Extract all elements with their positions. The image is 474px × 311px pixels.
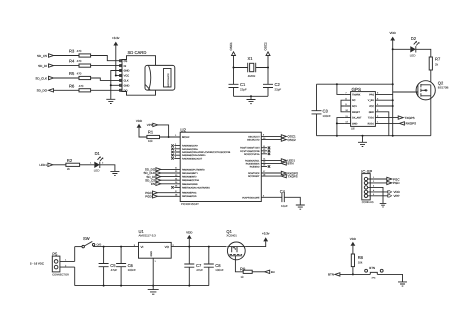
svg-text:470: 470 bbox=[77, 49, 82, 53]
ground D1 bbox=[110, 171, 119, 175]
wire R8 to btn row bbox=[352, 267, 354, 275]
connector SD CARD bbox=[120, 50, 156, 95]
svg-text:C7: C7 bbox=[196, 263, 202, 268]
junction bottom rail left bbox=[336, 135, 338, 137]
svg-text:SD CARD: SD CARD bbox=[128, 50, 147, 55]
svg-text:5 - 16 VDC: 5 - 16 VDC bbox=[30, 262, 44, 266]
resistor R8 bbox=[351, 254, 363, 267]
node TXGPS right U2 bbox=[261, 173, 297, 178]
svg-text:47uF: 47uF bbox=[196, 268, 203, 272]
junction C8 top bbox=[208, 246, 210, 248]
power VDD gps bbox=[390, 31, 397, 136]
wire Q1 gate down to R9 bbox=[235, 260, 243, 272]
wire VCAP to C4 bbox=[261, 195, 282, 198]
U2 RB5 stub nc bbox=[171, 185, 180, 189]
svg-text:470: 470 bbox=[77, 72, 82, 76]
wire R4 to SD DI pin bbox=[91, 65, 122, 67]
node SD_CS bbox=[37, 54, 54, 58]
svg-text:R5: R5 bbox=[69, 71, 75, 76]
svg-text:C4: C4 bbox=[280, 189, 286, 194]
wire vdd to D2 bbox=[393, 48, 411, 50]
junction top rail vdd bbox=[392, 83, 394, 85]
junction crystal gnd bbox=[250, 95, 252, 97]
svg-text:XC6401: XC6401 bbox=[226, 234, 237, 238]
junction vcc bbox=[392, 105, 394, 107]
node SD_DO bbox=[37, 89, 54, 93]
wire GPS pins 8 9 10 tie bbox=[341, 100, 345, 112]
node RXGPS gps bbox=[382, 122, 417, 126]
svg-text:2k: 2k bbox=[67, 167, 71, 171]
svg-text:DO: DO bbox=[124, 90, 128, 93]
junction C6 top bbox=[120, 246, 122, 248]
svg-text:RB5/T0CKI/AC+/OUTA/KBI1: RB5/T0CKI/AC+/OUTA/KBI1 bbox=[182, 186, 211, 189]
capacitor C1 bbox=[229, 68, 247, 97]
capacitor C6 bbox=[116, 247, 136, 286]
svg-text:EN: EN bbox=[271, 271, 275, 274]
wire GND pins bbox=[111, 71, 122, 100]
svg-text:GND: GND bbox=[124, 70, 130, 73]
junction C6 bottom bbox=[120, 285, 122, 287]
wire Q1 out to +3.3v bbox=[245, 241, 266, 246]
svg-text:10k: 10k bbox=[358, 260, 363, 264]
svg-text:VCC: VCC bbox=[369, 105, 374, 108]
svg-text:R1: R1 bbox=[148, 129, 154, 134]
svg-text:470: 470 bbox=[79, 84, 84, 88]
svg-text:RC7/RX/DT: RC7/RX/DT bbox=[248, 175, 260, 178]
svg-text:DI: DI bbox=[124, 65, 127, 68]
resistor R4 bbox=[69, 59, 91, 67]
svg-text:TMARK: TMARK bbox=[352, 93, 361, 96]
ground btn bbox=[398, 282, 407, 286]
junction C7 vdd bbox=[188, 246, 190, 248]
wire U1 gnd down bbox=[152, 258, 154, 285]
svg-text:SW: SW bbox=[83, 236, 90, 241]
junction bottom rail vdd line bbox=[392, 135, 394, 137]
svg-text:PGD: PGD bbox=[393, 181, 400, 185]
wire VCC pin bbox=[116, 75, 122, 77]
svg-text:100nF: 100nF bbox=[128, 268, 136, 272]
U2 left pin labels bbox=[182, 136, 231, 198]
junction C7 bottom bbox=[188, 285, 190, 287]
capacitor C3 bbox=[312, 109, 331, 118]
svg-text:C1: C1 bbox=[240, 82, 246, 87]
capacitor C7 bbox=[184, 247, 203, 286]
junction VCC bbox=[115, 75, 117, 77]
svg-text:R6: R6 bbox=[69, 83, 75, 88]
node VDD icsp bbox=[368, 189, 401, 194]
wire btn to ground bbox=[377, 274, 402, 282]
svg-text:100nF: 100nF bbox=[323, 114, 331, 118]
svg-text:RA3/AN3/C1IN+/VREF+: RA3/AN3/C1IN+/VREF+ bbox=[182, 154, 206, 157]
svg-text:C5: C5 bbox=[110, 263, 116, 268]
junction top rail pin7 bbox=[336, 83, 338, 85]
junction led branch bbox=[392, 48, 394, 50]
capacitor C4 bbox=[280, 189, 288, 208]
svg-text:D1: D1 bbox=[95, 151, 101, 156]
node SD_DO left U2 bbox=[145, 167, 180, 172]
op-amp U2 microcontroller box bbox=[180, 127, 261, 206]
svg-text:C8: C8 bbox=[215, 263, 221, 268]
junction C5 top bbox=[103, 246, 105, 248]
node PGC left U2 bbox=[145, 190, 180, 195]
resistor R3 bbox=[69, 49, 91, 58]
wire GPS left rail bbox=[316, 84, 318, 136]
svg-text:RC2/CCP1/P1A: RC2/CCP1/P1A bbox=[244, 153, 260, 156]
svg-text:AMS1117-3.3: AMS1117-3.3 bbox=[139, 234, 157, 238]
svg-text:DX_ANT: DX_ANT bbox=[352, 117, 362, 120]
power VDD btn bbox=[350, 237, 357, 254]
svg-text:VI: VI bbox=[141, 245, 144, 249]
svg-text:470: 470 bbox=[77, 59, 82, 63]
svg-text:RXD1: RXD1 bbox=[368, 122, 375, 125]
svg-text:MICROMATE: MICROMATE bbox=[167, 73, 170, 87]
transistor Q1 bbox=[226, 229, 245, 260]
power +3.3v out bbox=[262, 232, 270, 242]
svg-text:SD_CS: SD_CS bbox=[37, 54, 47, 58]
svg-text:VCAP/VDDCORE: VCAP/VDDCORE bbox=[242, 196, 260, 199]
svg-text:OSC2: OSC2 bbox=[288, 138, 297, 142]
svg-text:PGD: PGD bbox=[145, 195, 152, 199]
svg-text:R7: R7 bbox=[435, 57, 441, 62]
wire GPS pin7 bbox=[337, 84, 345, 94]
svg-text:VDD: VDD bbox=[136, 119, 143, 123]
svg-text:BTN: BTN bbox=[328, 273, 334, 277]
node BTN right U2 bbox=[261, 161, 293, 166]
svg-text:BS170B: BS170B bbox=[438, 86, 449, 90]
node OSC2 right U2 bbox=[261, 137, 296, 142]
node EN left U2 bbox=[151, 181, 180, 186]
svg-text:RB6/AN5/PGC: RB6/AN5/PGC bbox=[182, 191, 197, 194]
svg-text:RC5/SDO: RC5/SDO bbox=[250, 166, 260, 169]
svg-text:GPS: GPS bbox=[352, 87, 362, 92]
junction C5 bottom bbox=[103, 285, 105, 287]
svg-text:CONNECTOR: CONNECTOR bbox=[52, 273, 69, 276]
svg-text:MCLR: MCLR bbox=[182, 136, 189, 139]
wire U1 out rail bbox=[171, 246, 226, 248]
node OSC1 crystal bbox=[229, 42, 236, 68]
svg-text:GND: GND bbox=[369, 111, 375, 114]
wire C4 to ground bbox=[284, 197, 300, 205]
svg-text:47uF: 47uF bbox=[111, 268, 118, 272]
sd card body drawing bbox=[145, 65, 175, 90]
svg-text:+3.3v: +3.3v bbox=[262, 232, 270, 236]
junction MCLR bbox=[168, 136, 170, 138]
svg-text:RB4/AN11/KBI0: RB4/AN11/KBI0 bbox=[182, 183, 198, 186]
svg-text:BTN: BTN bbox=[288, 162, 294, 166]
svg-text:GND: GND bbox=[124, 85, 130, 88]
svg-text:RC4/SDI/SDA: RC4/SDI/SDA bbox=[246, 162, 260, 165]
junction bottom rail gnd bbox=[362, 135, 364, 137]
svg-text:SD_DI: SD_DI bbox=[38, 64, 47, 68]
wire Q2 source down bbox=[430, 96, 432, 136]
ground crystal bbox=[247, 96, 256, 103]
svg-text:RB1/AN10/INT1: RB1/AN10/INT1 bbox=[182, 172, 198, 175]
svg-text:PPS: PPS bbox=[369, 93, 374, 96]
svg-text:22pF: 22pF bbox=[240, 88, 247, 92]
svg-text:R2: R2 bbox=[67, 158, 73, 163]
svg-text:LED1: LED1 bbox=[39, 163, 47, 167]
button BTN bbox=[365, 266, 383, 279]
svg-text:C3: C3 bbox=[323, 109, 329, 114]
svg-text:VDD: VDD bbox=[186, 230, 193, 234]
svg-text:OSC1/CLKI: OSC1/CLKI bbox=[248, 135, 260, 138]
svg-text:TXD1: TXD1 bbox=[368, 117, 375, 120]
svg-text:RA1/AN1/C2IN+: RA1/AN1/C2IN+ bbox=[182, 148, 199, 151]
resistor R5 bbox=[69, 71, 91, 80]
svg-text:GND: GND bbox=[352, 122, 358, 125]
node EN q1 bbox=[252, 270, 274, 274]
wire icsp pin3 to ground bbox=[368, 185, 383, 204]
wire GPS top rail bbox=[317, 83, 393, 85]
svg-text:RA2/AN2/C2IN-/VREF-/CVREF/C1/T: RA2/AN2/C2IN-/VREF-/CVREF/C1/T1OSC/CP2B bbox=[182, 151, 231, 154]
svg-text:RB2/AN8/INT2: RB2/AN8/INT2 bbox=[182, 176, 197, 179]
U2 RA pin stubs nc bbox=[171, 143, 180, 160]
svg-text:VPP: VPP bbox=[147, 123, 153, 127]
node LED1 left bbox=[39, 163, 53, 167]
svg-text:R9: R9 bbox=[240, 266, 246, 271]
svg-text:RC6/TX/CK: RC6/TX/CK bbox=[248, 172, 260, 175]
junction pin12 bbox=[336, 122, 338, 124]
connector IC-SP bbox=[361, 169, 374, 204]
capacitor C2 bbox=[263, 68, 281, 97]
wire SD_DO to R6 bbox=[54, 89, 80, 91]
resistor R6 bbox=[69, 83, 91, 91]
junction GND bbox=[110, 84, 112, 86]
resistor R2 bbox=[66, 158, 80, 171]
wire R3 to SD CS pin bbox=[91, 56, 122, 61]
crystal X1 bbox=[234, 56, 269, 78]
node BTN signal bbox=[328, 273, 370, 277]
svg-text:NC1: NC1 bbox=[352, 105, 357, 108]
wire R6 to SD DO pin bbox=[91, 89, 122, 91]
svg-text:VCC: VCC bbox=[124, 75, 130, 78]
wire GPS pins 11 12 to rail bbox=[337, 118, 345, 136]
svg-text:RB7/AN6/PGD: RB7/AN6/PGD bbox=[182, 195, 197, 198]
svg-text:OSC1: OSC1 bbox=[229, 42, 233, 51]
wire D2 to R7 bbox=[416, 49, 431, 57]
svg-text:CONN-H5: CONN-H5 bbox=[362, 201, 374, 204]
node TXGPS gps bbox=[382, 116, 415, 120]
node LED1 right U2 bbox=[261, 158, 295, 163]
wire main rail to U1 bbox=[104, 246, 139, 248]
svg-text:C2: C2 bbox=[275, 82, 281, 87]
module GPS box bbox=[345, 87, 382, 131]
node PGD left U2 bbox=[145, 194, 180, 199]
U2 RC0-RC2 stubs nc bbox=[261, 145, 270, 155]
svg-text:EN: EN bbox=[151, 182, 155, 186]
node SD_CLK left U2 bbox=[144, 170, 181, 175]
U2 RC5 stub nc bbox=[261, 164, 270, 168]
svg-text:R8: R8 bbox=[358, 255, 364, 260]
node RXGPS right U2 bbox=[261, 170, 298, 175]
svg-text:+3.3v: +3.3v bbox=[112, 36, 120, 40]
wire SD_CLK to R5 bbox=[54, 77, 80, 79]
svg-text:RXGPS: RXGPS bbox=[406, 122, 417, 126]
svg-text:BTN: BTN bbox=[369, 266, 375, 270]
capacitor C5 bbox=[99, 247, 118, 286]
wire GPS right pins to vdd rail bbox=[382, 94, 393, 135]
svg-text:RC1/T1OSI/CCP2B: RC1/T1OSI/CCP2B bbox=[240, 150, 260, 153]
resistor R7 bbox=[429, 57, 441, 70]
svg-text:100nF: 100nF bbox=[215, 268, 223, 272]
svg-text:VO: VO bbox=[165, 245, 170, 249]
svg-text:VPP: VPP bbox=[394, 194, 400, 198]
node SD_DI left U2 bbox=[146, 174, 180, 179]
svg-text:PIC16F15C4T: PIC16F15C4T bbox=[181, 202, 199, 206]
wire R7 to Q2 bbox=[430, 70, 432, 85]
svg-text:LED: LED bbox=[410, 53, 416, 57]
svg-text:RB0/AN4/DPL/T0/INT0: RB0/AN4/DPL/T0/INT0 bbox=[182, 168, 205, 171]
transistor Q2 bbox=[393, 81, 449, 100]
node OSC1 right U2 bbox=[261, 134, 296, 139]
svg-text:D2: D2 bbox=[411, 36, 417, 41]
svg-text:SD_CLK: SD_CLK bbox=[35, 77, 47, 81]
svg-text:U6: U6 bbox=[351, 127, 355, 131]
svg-text:VDD: VDD bbox=[390, 31, 397, 35]
power VDD main bbox=[186, 230, 193, 246]
svg-text:RESET: RESET bbox=[352, 111, 361, 114]
node SD_CS left U2 bbox=[145, 177, 180, 182]
switch SW bbox=[75, 236, 104, 248]
resistor R1 bbox=[147, 129, 160, 142]
ground gps bbox=[358, 136, 367, 147]
svg-text:X1: X1 bbox=[248, 56, 254, 61]
wire R2 to D1 bbox=[80, 164, 95, 166]
power +3.3v SD bbox=[112, 36, 120, 76]
wire gnd rail bottom bbox=[75, 285, 209, 287]
svg-text:RA0/AN0/C1IN+: RA0/AN0/C1IN+ bbox=[182, 145, 199, 148]
svg-text:GND: GND bbox=[150, 251, 153, 257]
ground main bbox=[148, 286, 159, 295]
wire SD_DI to R4 bbox=[54, 65, 80, 67]
svg-text:TXGPS: TXGPS bbox=[288, 174, 298, 178]
junction crystal left bbox=[233, 67, 235, 69]
ground icsp bbox=[380, 203, 387, 207]
svg-text:4MHz: 4MHz bbox=[248, 74, 256, 78]
diode D1 LED bbox=[90, 151, 104, 173]
junction crystal right bbox=[267, 67, 269, 69]
svg-text:10k: 10k bbox=[148, 139, 153, 143]
capacitor C8 bbox=[204, 247, 224, 286]
svg-text:RA4/AN4/SSC2OUT: RA4/AN4/SSC2OUT bbox=[182, 157, 203, 160]
node SD_CLK bbox=[35, 76, 53, 80]
svg-text:OSC2: OSC2 bbox=[264, 42, 268, 51]
node VPP bbox=[147, 123, 158, 127]
node SD_DI bbox=[38, 64, 53, 68]
wire LED1 to R2 bbox=[53, 164, 66, 166]
node VPP icsp bbox=[368, 193, 400, 198]
wire R5 to SD CLK pin bbox=[91, 78, 122, 80]
svg-text:RC0/T1OSO/T1CKI: RC0/T1OSO/T1CKI bbox=[240, 147, 260, 150]
connector P5 bbox=[30, 251, 75, 276]
wire P5 pin2 down to gnd rail bbox=[74, 267, 76, 286]
junction btn bbox=[352, 273, 354, 275]
svg-text:10uF: 10uF bbox=[281, 204, 288, 208]
svg-text:R3: R3 bbox=[69, 49, 75, 54]
wire GPS bottom rail bbox=[317, 135, 431, 137]
wire VPP to MCLR bbox=[158, 125, 169, 137]
node PGC icsp bbox=[368, 176, 401, 181]
svg-text:VDD: VDD bbox=[350, 237, 357, 241]
svg-text:CS: CS bbox=[124, 60, 128, 63]
svg-text:TXGPS: TXGPS bbox=[405, 116, 415, 120]
regulator U1 bbox=[134, 229, 175, 263]
power VDD U2 bbox=[136, 119, 147, 137]
svg-text:NC: NC bbox=[352, 99, 356, 102]
svg-text:R4: R4 bbox=[69, 59, 75, 64]
node OSC2 crystal bbox=[264, 42, 271, 68]
junction v_bu bbox=[392, 99, 394, 101]
svg-text:O/G: O/G bbox=[97, 243, 102, 246]
junction U1 gnd rail bbox=[152, 285, 154, 287]
diode D2 LED bbox=[410, 36, 420, 57]
node PGD icsp bbox=[368, 180, 401, 185]
wire crystal bottom bbox=[234, 95, 269, 97]
svg-text:LED: LED bbox=[94, 169, 100, 173]
svg-text:RB3/AN9/CCP2A: RB3/AN9/CCP2A bbox=[182, 179, 200, 182]
ground C4 bbox=[296, 205, 305, 209]
svg-text:RC3/SCK/SCL: RC3/SCK/SCL bbox=[245, 159, 260, 162]
svg-text:C6: C6 bbox=[128, 263, 134, 268]
svg-text:U2: U2 bbox=[180, 127, 186, 132]
U2 right pin labels bbox=[240, 135, 260, 199]
wire D1 to ground bbox=[100, 165, 115, 172]
svg-text:V_BU: V_BU bbox=[368, 99, 375, 102]
wire SD_CS to R3 bbox=[54, 55, 80, 57]
svg-text:SD_DO: SD_DO bbox=[37, 89, 48, 93]
svg-text:CLK: CLK bbox=[124, 80, 129, 83]
svg-text:OSC2/CLKO: OSC2/CLKO bbox=[247, 139, 260, 142]
svg-text:22pF: 22pF bbox=[275, 88, 282, 92]
ground sd card bbox=[106, 99, 115, 103]
wire P5 pin1 up to switch bbox=[74, 247, 76, 262]
resistor R9 bbox=[240, 266, 252, 278]
wire R1 to U2 MCLR bbox=[160, 136, 181, 138]
